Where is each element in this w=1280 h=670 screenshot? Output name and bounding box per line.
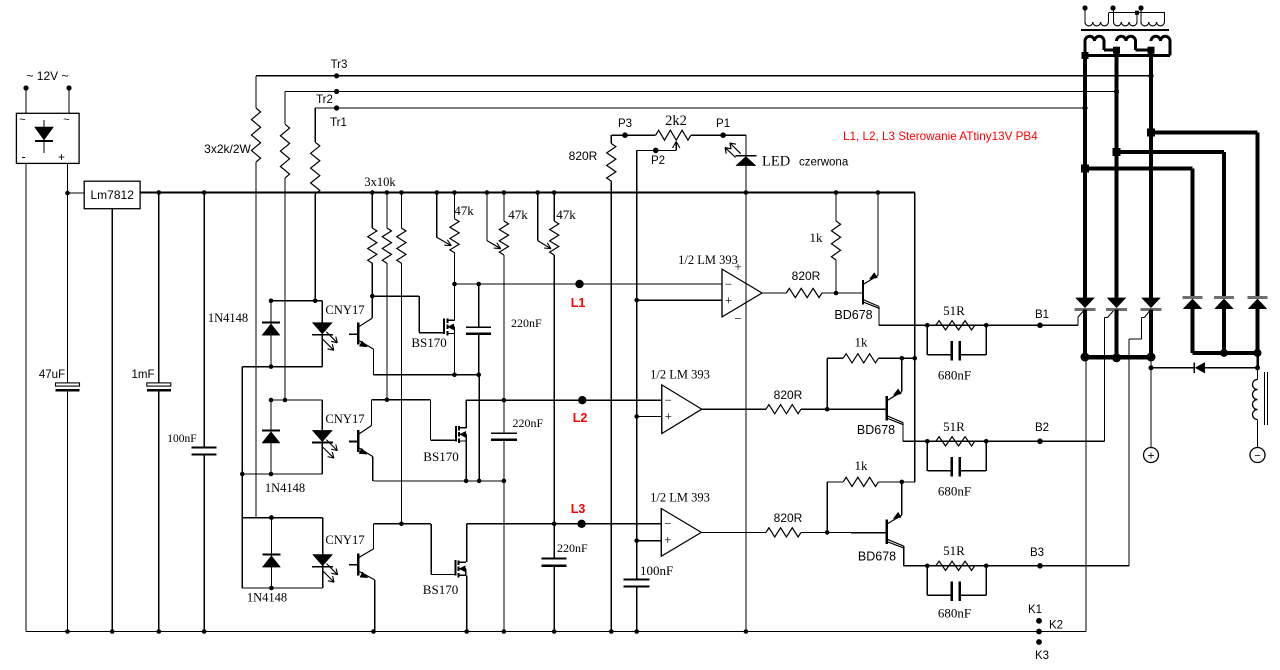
svg-text:51R: 51R: [943, 543, 965, 558]
svg-text:+: +: [734, 259, 741, 274]
svg-text:Tr3: Tr3: [331, 59, 348, 71]
svg-text:B2: B2: [1035, 422, 1049, 434]
svg-text:Tr1: Tr1: [330, 117, 347, 129]
svg-text:-: -: [21, 149, 25, 164]
svg-text:220nF: 220nF: [511, 316, 542, 330]
svg-text:100nF: 100nF: [167, 433, 196, 445]
svg-text:−: −: [664, 516, 671, 531]
svg-text:BD678: BD678: [857, 423, 895, 437]
svg-text:B3: B3: [1030, 547, 1044, 559]
svg-text:BS170: BS170: [423, 582, 458, 597]
svg-text:1/2 LM 393: 1/2 LM 393: [650, 491, 710, 505]
svg-text:L1, L2, L3 Sterowanie ATtiny13: L1, L2, L3 Sterowanie ATtiny13V PB4: [843, 130, 1038, 143]
svg-text:820R: 820R: [774, 511, 803, 525]
svg-text:220nF: 220nF: [513, 416, 544, 430]
svg-text:K1: K1: [1028, 604, 1042, 616]
svg-text:CNY17: CNY17: [325, 412, 364, 426]
svg-text:czerwona: czerwona: [799, 157, 849, 169]
svg-text:1N4148: 1N4148: [247, 591, 287, 605]
svg-text:K3: K3: [1035, 650, 1049, 662]
svg-text:BD678: BD678: [858, 550, 896, 564]
svg-text:BD678: BD678: [834, 308, 872, 322]
svg-text:680nF: 680nF: [938, 368, 971, 383]
svg-text:+: +: [58, 150, 65, 164]
svg-text:Tr2: Tr2: [316, 94, 333, 106]
svg-text:680nF: 680nF: [938, 484, 971, 499]
svg-text:CNY17: CNY17: [325, 303, 364, 317]
svg-text:1/2 LM 393: 1/2 LM 393: [650, 368, 710, 382]
svg-text:51R: 51R: [943, 303, 965, 318]
svg-text:3x2k/2W: 3x2k/2W: [204, 142, 251, 156]
svg-text:1N4148: 1N4148: [265, 481, 305, 495]
svg-text:+: +: [1147, 449, 1154, 463]
svg-text:B1: B1: [1035, 309, 1049, 321]
svg-text:+: +: [665, 408, 672, 423]
svg-text:1k: 1k: [855, 334, 869, 349]
svg-text:CNY17: CNY17: [325, 533, 364, 547]
svg-text:1k: 1k: [855, 458, 869, 473]
svg-text:47k: 47k: [556, 207, 576, 222]
svg-text:−: −: [665, 392, 672, 407]
svg-text:51R: 51R: [943, 419, 965, 434]
svg-text:L1: L1: [571, 296, 586, 310]
svg-text:L2: L2: [573, 411, 588, 425]
svg-text:−: −: [734, 311, 741, 326]
svg-text:820R: 820R: [774, 388, 803, 402]
svg-text:820R: 820R: [792, 269, 821, 283]
svg-text:3x10k: 3x10k: [364, 175, 396, 189]
svg-text:−: −: [1254, 450, 1260, 462]
svg-text:1N4148: 1N4148: [208, 311, 248, 325]
svg-text:K2: K2: [1049, 620, 1063, 632]
svg-text:~ 12V ~: ~ 12V ~: [26, 69, 68, 83]
svg-text:1k: 1k: [810, 230, 824, 245]
svg-text:LED: LED: [762, 154, 790, 170]
svg-text:~: ~: [19, 114, 25, 126]
svg-text:47k: 47k: [508, 207, 528, 222]
svg-text:BS170: BS170: [411, 335, 446, 350]
svg-text:P2: P2: [651, 155, 665, 167]
svg-text:Lm7812: Lm7812: [91, 188, 135, 202]
svg-text:1/2 LM 393: 1/2 LM 393: [678, 253, 738, 267]
svg-text:1mF: 1mF: [132, 369, 155, 381]
svg-text:680nF: 680nF: [938, 606, 971, 621]
svg-text:P3: P3: [618, 118, 632, 130]
svg-text:47uF: 47uF: [39, 369, 65, 381]
svg-text:BS170: BS170: [423, 449, 458, 464]
svg-text:+: +: [664, 532, 671, 547]
svg-text:47k: 47k: [454, 203, 474, 218]
svg-text:2k2: 2k2: [665, 113, 687, 129]
svg-text:220nF: 220nF: [557, 541, 588, 555]
svg-text:~: ~: [63, 114, 69, 126]
svg-text:P1: P1: [716, 118, 730, 130]
svg-text:−: −: [725, 277, 732, 292]
svg-text:L3: L3: [571, 502, 586, 516]
svg-text:100nF: 100nF: [640, 563, 673, 578]
svg-text:820R: 820R: [569, 149, 598, 163]
svg-text:+: +: [725, 293, 732, 308]
